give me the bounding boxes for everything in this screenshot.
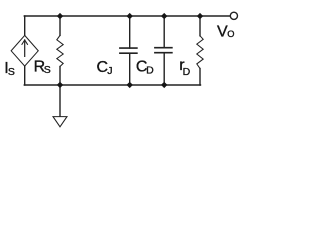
ground [59,85,61,117]
wire bottom rail [24,84,200,86]
wire left branch upper [24,16,26,35]
node dot top CD [161,13,167,19]
capacitor CJ [129,16,131,48]
wire top rail [24,15,230,17]
node dot top RS [57,13,63,19]
current source IS diamond [11,35,38,66]
node dot bottom CD [161,82,167,88]
current source IS arrow [24,40,26,56]
node dot top CJ [127,13,133,19]
node dot bottom RS [57,82,63,88]
resistor rD [199,16,201,36]
capacitor CD [163,16,165,48]
terminal Vo circle [230,12,237,19]
node dot bottom CJ [127,82,133,88]
wire left branch lower [24,66,26,85]
resistor RS [59,16,61,35]
node dot top rD [197,13,203,19]
